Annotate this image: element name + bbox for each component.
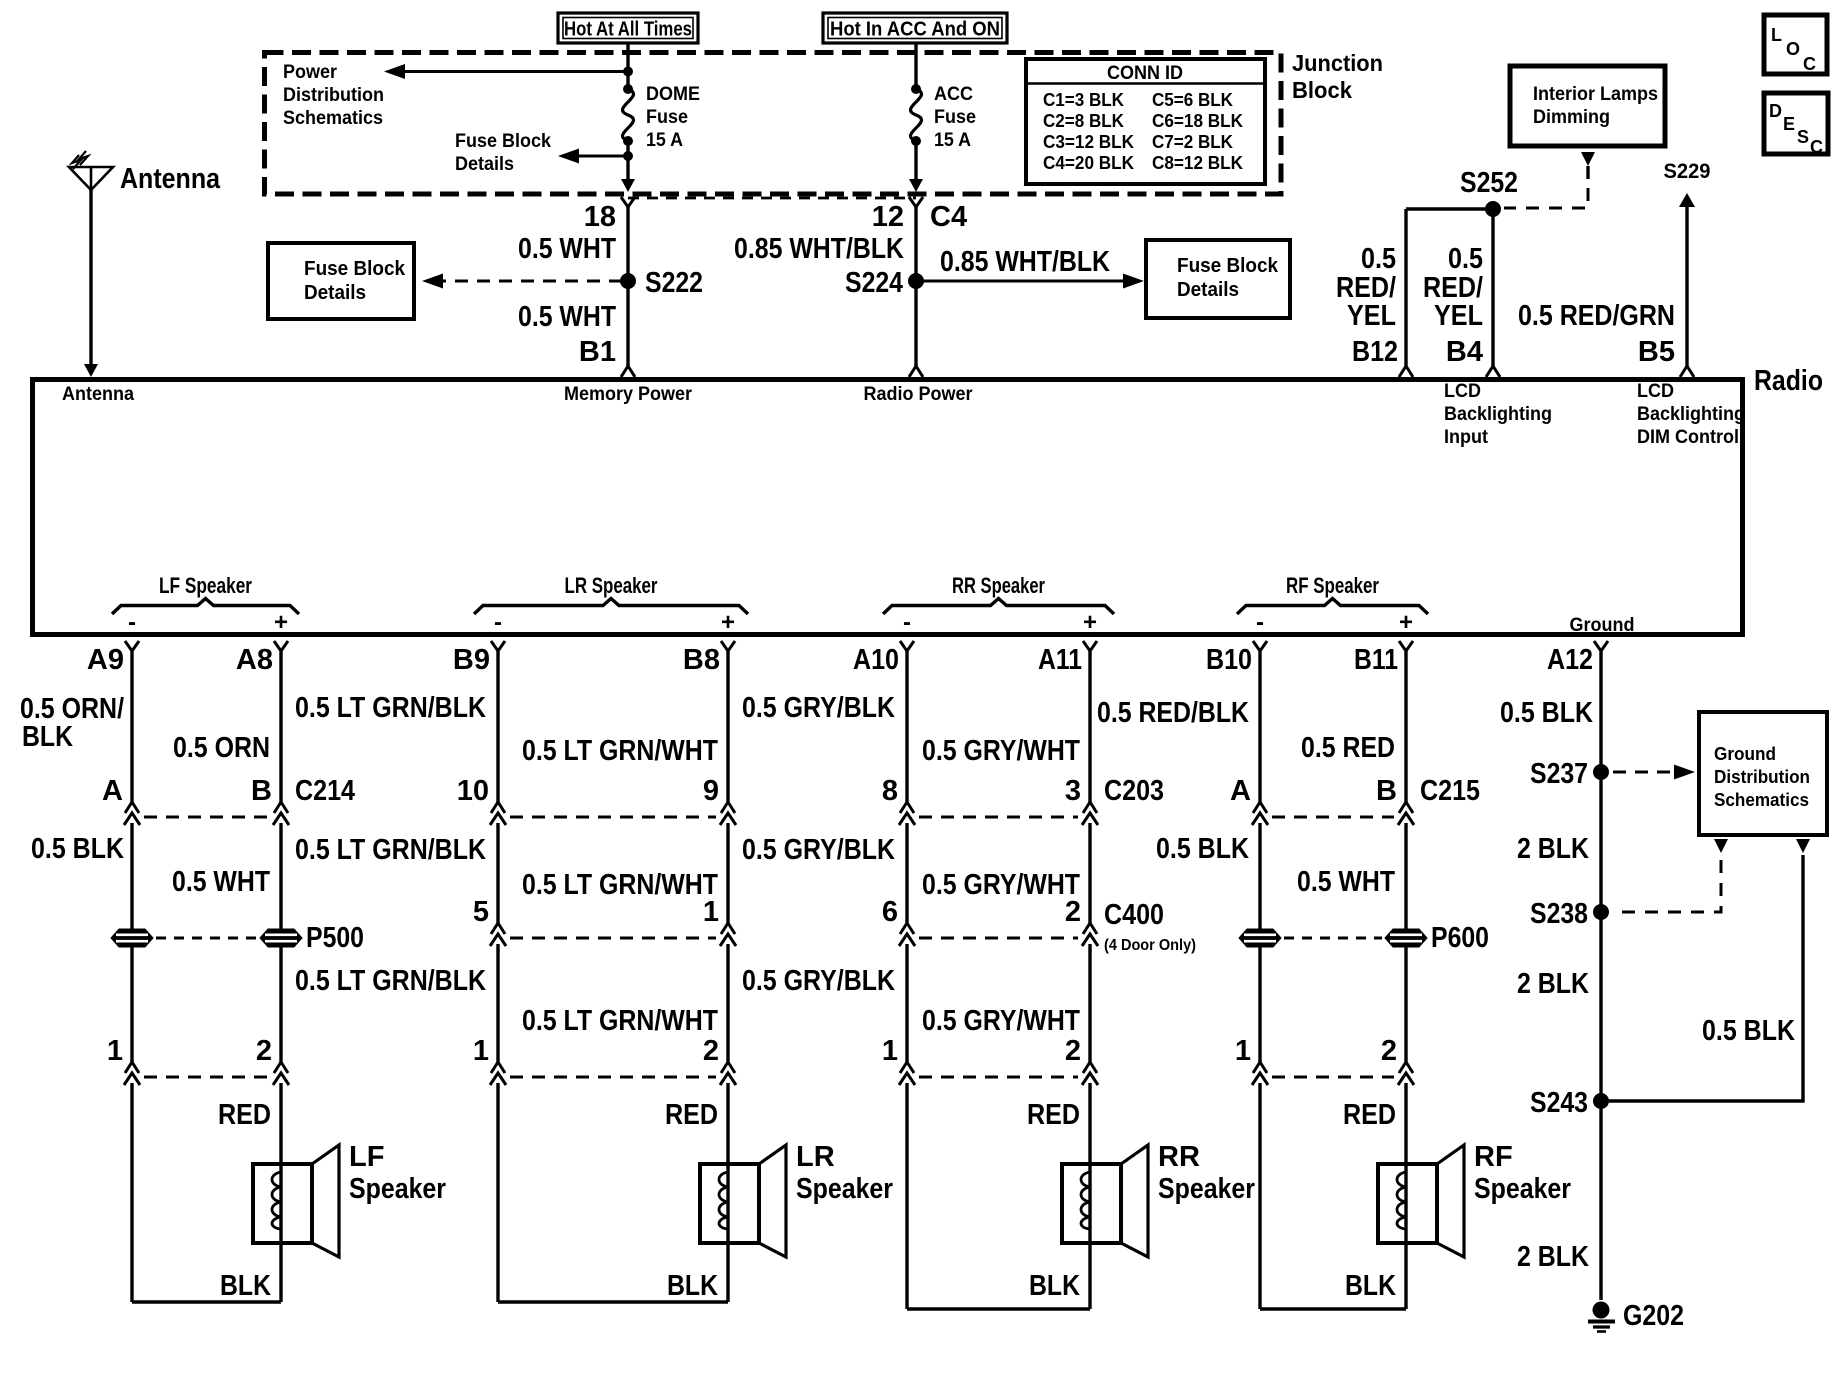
wire: DOME fuse down to junction block edge — [626, 141, 629, 180]
wire RF - segment from radio — [1258, 649, 1261, 802]
speaker coil — [719, 1172, 728, 1229]
svg-text:Distribution: Distribution — [283, 85, 384, 106]
wire LR - bottom return — [498, 1300, 728, 1303]
svg-text:0.5 ORN: 0.5 ORN — [173, 732, 270, 764]
svg-text:Fuse Block: Fuse Block — [304, 258, 406, 280]
svg-text:+: + — [1399, 609, 1413, 636]
svg-text:C2=8 BLK: C2=8 BLK — [1043, 111, 1124, 131]
wire B12 corner — [1406, 207, 1493, 210]
wire B1: 0.5 WHT — [626, 206, 629, 366]
svg-text:BLK: BLK — [1345, 1270, 1396, 1302]
svg-text:A8: A8 — [236, 644, 273, 676]
svg-text:0.5 RED/BLK: 0.5 RED/BLK — [1097, 697, 1249, 729]
svg-text:6: 6 — [882, 896, 898, 928]
svg-text:12: 12 — [872, 201, 904, 233]
svg-text:DIM Control: DIM Control — [1637, 427, 1739, 448]
svg-text:P500: P500 — [306, 922, 364, 954]
svg-text:0.5 BLK: 0.5 BLK — [1500, 697, 1593, 729]
radio pin B8 — [721, 641, 735, 651]
svg-text:C4=20 BLK: C4=20 BLK — [1043, 153, 1134, 173]
radio pin A11 — [1083, 641, 1097, 651]
splice S252 — [1485, 201, 1501, 217]
svg-text:P600: P600 — [1431, 922, 1489, 954]
svg-text:Schematics: Schematics — [1714, 790, 1809, 810]
svg-text:0.5: 0.5 — [1448, 243, 1483, 275]
splice S243 — [1593, 1093, 1609, 1109]
svg-text:-: - — [494, 609, 502, 636]
svg-text:0.5 RED/GRN: 0.5 RED/GRN — [1518, 300, 1675, 332]
wire RR - segment from radio — [905, 649, 908, 802]
connector row (A/B) — [1272, 816, 1394, 819]
svg-text:RF: RF — [1474, 1141, 1513, 1173]
wire RR - to speaker — [905, 1083, 908, 1309]
connector row (1/2) — [144, 1076, 269, 1079]
speaker coil — [1397, 1172, 1406, 1229]
svg-text:LR: LR — [796, 1141, 835, 1173]
dashed link S238 to box — [1714, 839, 1728, 853]
svg-text:C7=2 BLK: C7=2 BLK — [1152, 132, 1233, 152]
svg-text:Radio Power: Radio Power — [864, 384, 974, 405]
fuse DOME 15A — [623, 84, 633, 94]
svg-text:O: O — [1786, 39, 1800, 59]
svg-text:2: 2 — [1381, 1035, 1397, 1067]
wire LF - to speaker — [130, 1083, 133, 1302]
svg-text:D: D — [1769, 101, 1782, 121]
speaker bracket: LR Speaker — [474, 599, 748, 615]
svg-text:C3=12 BLK: C3=12 BLK — [1043, 132, 1134, 152]
svg-text:0.5 GRY/BLK: 0.5 GRY/BLK — [742, 834, 895, 866]
wire RF - bottom return — [1260, 1307, 1406, 1310]
svg-text:0.5 GRY/BLK: 0.5 GRY/BLK — [742, 692, 895, 724]
radio pin B10 — [1253, 641, 1267, 651]
svg-text:RR Speaker: RR Speaker — [952, 573, 1045, 598]
svg-text:Antenna: Antenna — [62, 384, 134, 405]
svg-text:A: A — [102, 775, 123, 807]
svg-text:0.5 LT GRN/BLK: 0.5 LT GRN/BLK — [295, 965, 486, 997]
svg-text:C5=6 BLK: C5=6 BLK — [1152, 90, 1233, 110]
svg-text:LCD: LCD — [1637, 381, 1674, 402]
dashed arrow from S222 to Fuse Block Details box — [436, 280, 622, 283]
svg-text:B9: B9 — [453, 644, 490, 676]
svg-text:B11: B11 — [1354, 644, 1398, 676]
svg-text:C8=12 BLK: C8=12 BLK — [1152, 153, 1243, 173]
radio pin B11 — [1399, 641, 1413, 651]
svg-text:C: C — [1803, 54, 1816, 74]
wire RF - segment 2 — [1258, 823, 1261, 929]
svg-text:5: 5 — [473, 896, 489, 928]
wire LF - segment from radio — [130, 649, 133, 802]
svg-text:B5: B5 — [1638, 336, 1675, 368]
svg-text:0.5 BLK: 0.5 BLK — [1702, 1015, 1795, 1047]
svg-text:0.5 BLK: 0.5 BLK — [31, 833, 124, 865]
svg-text:18: 18 — [584, 201, 616, 233]
svg-text:A11: A11 — [1038, 644, 1082, 676]
antenna symbol — [69, 167, 113, 190]
svg-text:Fuse Block: Fuse Block — [455, 131, 551, 152]
pass-through grommets P600 — [1284, 937, 1382, 940]
splice S222 — [620, 273, 636, 289]
svg-text:Power: Power — [283, 62, 338, 83]
svg-text:+: + — [1083, 609, 1097, 636]
svg-text:Fuse: Fuse — [646, 107, 688, 128]
svg-text:C214: C214 — [295, 775, 355, 807]
svg-text:C1=3 BLK: C1=3 BLK — [1043, 90, 1124, 110]
connector at junction block, wire B2 — [909, 197, 923, 207]
connector row (1/2) — [510, 1076, 716, 1079]
svg-text:+: + — [274, 609, 288, 636]
svg-text:Details: Details — [455, 154, 514, 175]
svg-text:B4: B4 — [1446, 336, 1483, 368]
speaker bracket: LF Speaker — [112, 599, 299, 615]
svg-text:0.5 LT GRN/BLK: 0.5 LT GRN/BLK — [295, 834, 486, 866]
svg-text:B8: B8 — [683, 644, 720, 676]
svg-text:0.85 WHT/BLK: 0.85 WHT/BLK — [734, 233, 904, 265]
svg-text:Dimming: Dimming — [1533, 107, 1610, 128]
svg-text:Fuse: Fuse — [934, 107, 976, 128]
svg-text:C: C — [1810, 137, 1823, 157]
svg-text:RED: RED — [665, 1099, 718, 1131]
dashed link from Interior Lamps Dimming to S252 — [1581, 152, 1595, 166]
svg-text:-: - — [1256, 609, 1264, 636]
splice S238 — [1593, 904, 1609, 920]
svg-text:ACC: ACC — [934, 84, 973, 105]
box: Fuse Block Details (left) — [268, 243, 414, 319]
speaker bracket: RF Speaker — [1237, 599, 1428, 615]
wire LF - segment 2 — [130, 823, 133, 929]
CONN ID table — [1026, 59, 1265, 184]
connector row (1/2) — [919, 1076, 1078, 1079]
svg-text:S: S — [1797, 127, 1809, 147]
svg-text:2 BLK: 2 BLK — [1517, 968, 1589, 1000]
pass-through grommets P500 — [156, 937, 257, 940]
svg-text:0.5 WHT: 0.5 WHT — [172, 866, 270, 898]
svg-text:2: 2 — [1065, 1035, 1081, 1067]
box: Ground Distribution Schematics — [1699, 712, 1827, 835]
ground G202 — [1593, 1302, 1610, 1319]
svg-text:S222: S222 — [645, 267, 703, 299]
svg-text:C4: C4 — [930, 201, 967, 233]
svg-text:0.5 WHT: 0.5 WHT — [1297, 866, 1395, 898]
wire LR - segment 2 — [496, 823, 499, 923]
svg-text:0.5 GRY/WHT: 0.5 GRY/WHT — [922, 869, 1080, 901]
svg-text:1: 1 — [107, 1035, 123, 1067]
svg-text:Memory Power: Memory Power — [564, 384, 693, 405]
svg-text:15 A: 15 A — [934, 130, 971, 151]
svg-text:S243: S243 — [1530, 1087, 1588, 1119]
svg-text:Antenna: Antenna — [120, 163, 221, 195]
svg-text:-: - — [903, 609, 911, 636]
speaker coil — [272, 1172, 281, 1229]
svg-text:Distribution: Distribution — [1714, 767, 1810, 787]
svg-text:Details: Details — [1177, 279, 1239, 301]
svg-text:BLK: BLK — [667, 1270, 718, 1302]
svg-text:0.5 WHT: 0.5 WHT — [518, 233, 616, 265]
svg-text:1: 1 — [1235, 1035, 1251, 1067]
svg-text:0.5 GRY/BLK: 0.5 GRY/BLK — [742, 965, 895, 997]
svg-text:2 BLK: 2 BLK — [1517, 833, 1589, 865]
wire B4 — [1491, 209, 1494, 366]
svg-text:1: 1 — [882, 1035, 898, 1067]
svg-text:LCD: LCD — [1444, 381, 1481, 402]
DESC tag box — [1764, 93, 1828, 154]
splice S237 — [1593, 764, 1609, 780]
svg-text:BLK: BLK — [220, 1270, 271, 1302]
svg-text:0.5 LT GRN/BLK: 0.5 LT GRN/BLK — [295, 692, 486, 724]
svg-text:0.5 LT GRN/WHT: 0.5 LT GRN/WHT — [522, 735, 718, 767]
wire RF - to speaker — [1258, 1083, 1261, 1309]
wire: ACC fuse down to junction block edge — [914, 141, 917, 180]
svg-text:S252: S252 — [1460, 167, 1518, 199]
svg-text:A12: A12 — [1547, 644, 1593, 676]
connector row (6/2) — [919, 937, 1078, 940]
wire LF - bottom return — [132, 1300, 281, 1303]
svg-text:2: 2 — [703, 1035, 719, 1067]
svg-text:B10: B10 — [1206, 644, 1252, 676]
svg-text:1: 1 — [473, 1035, 489, 1067]
connector row (10/9) — [510, 816, 716, 819]
box: Interior Lamps Dimming — [1510, 66, 1665, 146]
wire LR - to speaker — [496, 1083, 499, 1302]
speaker bracket: RR Speaker — [883, 599, 1114, 615]
svg-text:0.5 LT GRN/WHT: 0.5 LT GRN/WHT — [522, 1005, 718, 1037]
svg-text:Ground: Ground — [1714, 744, 1776, 764]
svg-text:Ground: Ground — [1570, 615, 1635, 636]
svg-text:0.5 RED: 0.5 RED — [1301, 732, 1395, 764]
svg-text:(4 Door Only): (4 Door Only) — [1104, 937, 1196, 954]
svg-text:S224: S224 — [845, 267, 903, 299]
svg-text:LF: LF — [349, 1141, 384, 1173]
svg-text:A10: A10 — [853, 644, 899, 676]
speaker RF — [1378, 1164, 1437, 1243]
connector row (8/3) — [919, 816, 1078, 819]
speaker LF — [253, 1164, 312, 1243]
svg-text:-: - — [128, 609, 136, 636]
svg-text:Hot At All Times: Hot At All Times — [564, 19, 692, 41]
svg-text:Details: Details — [304, 282, 366, 304]
svg-text:A9: A9 — [87, 644, 124, 676]
svg-text:Backlighting: Backlighting — [1637, 404, 1745, 425]
svg-text:C215: C215 — [1420, 775, 1480, 807]
svg-text:C6=18 BLK: C6=18 BLK — [1152, 111, 1243, 131]
dashed arrow S237 to Ground Distribution Schematics — [1613, 771, 1678, 774]
svg-text:YEL: YEL — [1434, 300, 1483, 332]
wire A12 ground: 0.5 BLK — [1599, 649, 1602, 1300]
fuse ACC 15A — [911, 84, 921, 94]
svg-text:2: 2 — [256, 1035, 272, 1067]
svg-text:Speaker: Speaker — [796, 1173, 893, 1205]
label box: Hot In ACC And ON — [823, 13, 1007, 43]
svg-text:Backlighting: Backlighting — [1444, 404, 1552, 425]
svg-text:RED: RED — [218, 1099, 271, 1131]
speaker coil — [1081, 1172, 1090, 1229]
svg-text:0.85 WHT/BLK: 0.85 WHT/BLK — [940, 246, 1110, 278]
wire B2: 0.85 WHT/BLK — [914, 206, 917, 366]
svg-text:Speaker: Speaker — [1474, 1173, 1571, 1205]
arrow to Power Distribution Schematics — [394, 70, 628, 73]
svg-text:RR: RR — [1158, 1141, 1200, 1173]
svg-text:L: L — [1771, 25, 1782, 45]
svg-text:2 BLK: 2 BLK — [1517, 1241, 1589, 1273]
svg-text:S229: S229 — [1664, 160, 1711, 183]
svg-text:Junction: Junction — [1292, 50, 1383, 76]
svg-text:RED: RED — [1027, 1099, 1080, 1131]
svg-text:Interior Lamps: Interior Lamps — [1533, 84, 1658, 105]
junction block connector dashed line — [628, 197, 916, 200]
svg-text:YEL: YEL — [1347, 300, 1396, 332]
svg-text:9: 9 — [703, 775, 719, 807]
radio pin A9 — [125, 641, 139, 651]
svg-text:BLK: BLK — [22, 721, 73, 753]
svg-text:0.5 GRY/WHT: 0.5 GRY/WHT — [922, 1005, 1080, 1037]
radio pin B9 — [491, 641, 505, 651]
svg-text:E: E — [1783, 114, 1795, 134]
svg-text:RED: RED — [1343, 1099, 1396, 1131]
svg-text:Speaker: Speaker — [349, 1173, 446, 1205]
svg-text:Hot In ACC And ON: Hot In ACC And ON — [830, 19, 1000, 41]
connector row (A/B) — [144, 816, 269, 819]
connector row (5/1) — [510, 937, 716, 940]
svg-text:C203: C203 — [1104, 775, 1164, 807]
wire RR - segment 2 — [905, 823, 908, 923]
svg-text:8: 8 — [882, 775, 898, 807]
svg-text:Block: Block — [1292, 77, 1352, 103]
svg-text:0.5: 0.5 — [1361, 243, 1396, 275]
svg-text:0.5 WHT: 0.5 WHT — [518, 301, 616, 333]
svg-text:3: 3 — [1065, 775, 1081, 807]
connector row (1/2) — [1272, 1076, 1394, 1079]
svg-text:B12: B12 — [1352, 336, 1398, 368]
svg-text:Speaker: Speaker — [1158, 1173, 1255, 1205]
svg-text:CONN ID: CONN ID — [1107, 63, 1183, 84]
wire RR - bottom return — [907, 1307, 1090, 1310]
svg-text:DOME: DOME — [646, 84, 700, 105]
svg-text:+: + — [721, 609, 735, 636]
svg-text:0.5 BLK: 0.5 BLK — [1156, 833, 1249, 865]
svg-text:S237: S237 — [1530, 758, 1588, 790]
box: Fuse Block Details (right) — [1146, 240, 1290, 318]
radio pin A10 — [900, 641, 914, 651]
svg-text:BLK: BLK — [1029, 1270, 1080, 1302]
antenna lead wire — [89, 190, 92, 365]
svg-text:B: B — [251, 775, 272, 807]
wire: Hot At All Times to DOME fuse — [626, 43, 629, 89]
svg-text:B1: B1 — [579, 336, 616, 368]
svg-text:Fuse Block: Fuse Block — [1177, 255, 1279, 277]
svg-text:0.5 LT GRN/WHT: 0.5 LT GRN/WHT — [522, 869, 718, 901]
svg-text:S238: S238 — [1530, 898, 1588, 930]
svg-text:15 A: 15 A — [646, 130, 683, 151]
svg-text:RF Speaker: RF Speaker — [1286, 573, 1379, 598]
splice S224 — [908, 273, 924, 289]
svg-text:A: A — [1230, 775, 1251, 807]
speaker RR — [1062, 1164, 1121, 1243]
arrow to Fuse Block Details — [568, 155, 628, 158]
radio box — [33, 380, 1743, 635]
radio pin A8 — [274, 641, 288, 651]
wire LR - segment from radio — [496, 649, 499, 802]
radio pin A12 — [1594, 641, 1608, 651]
svg-text:Input: Input — [1444, 427, 1489, 448]
junction block dashed outline — [265, 53, 1282, 195]
svg-text:G202: G202 — [1623, 1300, 1684, 1332]
svg-text:Schematics: Schematics — [283, 108, 383, 129]
svg-text:B: B — [1376, 775, 1397, 807]
speaker LR — [700, 1164, 759, 1243]
svg-text:10: 10 — [457, 775, 489, 807]
svg-text:LR Speaker: LR Speaker — [565, 573, 658, 598]
LOC tag box — [1764, 15, 1827, 74]
wire 0.5 BLK from box to S243 — [1796, 839, 1810, 853]
label box: Hot At All Times — [558, 13, 698, 43]
wire: Hot In ACC to ACC fuse — [914, 43, 917, 89]
svg-text:LF Speaker: LF Speaker — [159, 573, 252, 598]
arrow from S224 to Fuse Block Details box (right) — [916, 280, 1134, 283]
svg-text:C400: C400 — [1104, 899, 1164, 931]
connector at junction block, wire B1 — [621, 197, 635, 207]
svg-text:0.5 GRY/WHT: 0.5 GRY/WHT — [922, 735, 1080, 767]
junction dot on DOME feed — [623, 67, 633, 77]
svg-text:Radio: Radio — [1754, 365, 1823, 397]
